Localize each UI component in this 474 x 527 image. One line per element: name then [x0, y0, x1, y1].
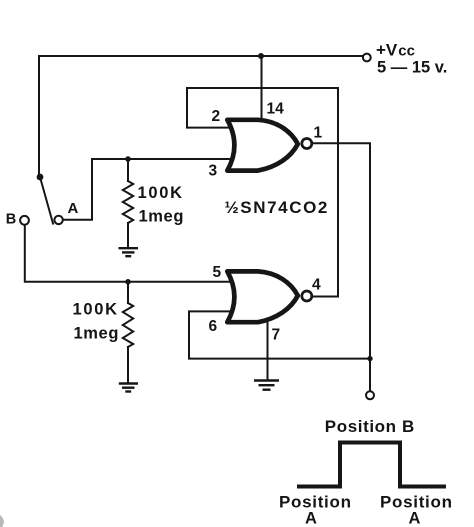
- svg-text:5: 5: [213, 264, 222, 281]
- svg-text:A: A: [305, 510, 317, 527]
- svg-text:A: A: [409, 510, 421, 527]
- svg-text:A: A: [68, 200, 79, 217]
- svg-text:+Vcc: +Vcc: [376, 41, 415, 60]
- svg-text:1: 1: [314, 125, 323, 142]
- svg-text:7: 7: [272, 327, 281, 344]
- svg-text:½SN74CO2: ½SN74CO2: [225, 198, 329, 217]
- svg-text:14: 14: [267, 101, 285, 118]
- svg-text:6: 6: [209, 318, 218, 335]
- svg-text:2: 2: [212, 108, 221, 125]
- svg-text:5 — 15 v.: 5 — 15 v.: [377, 59, 447, 77]
- svg-text:1meg: 1meg: [139, 208, 185, 226]
- svg-text:3: 3: [209, 163, 218, 180]
- svg-text:Position B: Position B: [325, 417, 415, 436]
- svg-text:4: 4: [312, 277, 321, 294]
- svg-text:100K: 100K: [138, 184, 184, 202]
- svg-text:B: B: [6, 212, 16, 228]
- svg-text:100K: 100K: [73, 301, 119, 319]
- svg-text:1meg: 1meg: [74, 325, 120, 343]
